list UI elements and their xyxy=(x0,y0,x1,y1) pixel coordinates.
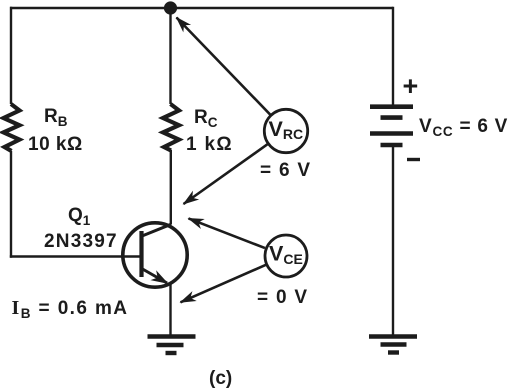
svg-text:1 kΩ: 1 kΩ xyxy=(186,134,233,155)
svg-text:+: + xyxy=(403,71,419,101)
svg-text:= 0 V: = 0 V xyxy=(257,287,308,308)
svg-text:RB: RB xyxy=(44,106,68,129)
svg-text:10 kΩ: 10 kΩ xyxy=(28,134,83,155)
svg-text:Q1: Q1 xyxy=(68,205,91,228)
wire: left vertical (RB to base wire) xyxy=(10,151,12,258)
arrow V_CE to collector xyxy=(189,218,266,248)
node: top junction dot xyxy=(164,1,177,14)
transistor Q1 emitter line with arrow xyxy=(143,269,168,283)
svg-text:(c): (c) xyxy=(209,368,232,389)
wire: base wire to Q1 xyxy=(10,255,140,257)
wire: right vertical (top rail to battery) xyxy=(392,7,394,105)
svg-text:VCC = 6 V: VCC = 6 V xyxy=(419,116,508,139)
meter V_CE circle xyxy=(265,235,307,277)
wire: left vertical (top rail to RB) xyxy=(10,7,12,104)
arrow V_CE to emitter wire xyxy=(181,265,266,303)
transistor Q1 collector line xyxy=(142,224,171,236)
ground (emitter) xyxy=(148,337,196,354)
svg-text:RC: RC xyxy=(194,107,218,130)
battery V_CC plates xyxy=(370,107,413,145)
resistor R_B zigzag xyxy=(4,104,20,151)
wire: middle vertical (RC to collector) xyxy=(170,150,172,225)
resistor R_C zigzag xyxy=(163,104,179,151)
svg-text:= 6 V: = 6 V xyxy=(260,160,311,181)
svg-text:VRC: VRC xyxy=(269,117,304,142)
label - xyxy=(407,158,420,161)
meter V_RC circle xyxy=(264,109,307,152)
wire: top horizontal rail xyxy=(10,7,393,9)
arrow V_RC to top node xyxy=(177,18,271,115)
arrow V_RC to collector xyxy=(184,144,268,204)
svg-text:IB = 0.6 mA: IB = 0.6 mA xyxy=(12,297,129,321)
ground (battery) xyxy=(369,337,417,353)
wire: battery to ground xyxy=(392,147,394,336)
wire: middle vertical (junction to RC) xyxy=(169,8,171,104)
svg-text:2N3397: 2N3397 xyxy=(44,231,118,252)
transistor Q1 base bar xyxy=(139,231,143,277)
svg-text:VCE: VCE xyxy=(269,241,303,267)
wire: emitter to ground xyxy=(169,284,171,336)
transistor Q1 circle xyxy=(123,223,187,287)
